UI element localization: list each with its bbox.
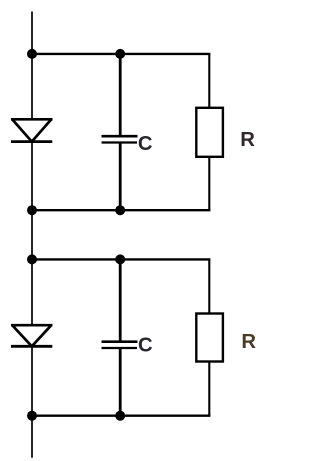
junction dot: stage 1 bottom-left <box>27 205 37 215</box>
label R (stage 2) <box>241 331 256 353</box>
wire: stage 2 top horizontal <box>32 258 210 260</box>
diode D2 <box>11 325 53 346</box>
capacitor C1 plates <box>102 136 138 142</box>
junction dot: stage 1 top-left <box>27 49 37 59</box>
wire: stage 2 bottom horizontal <box>32 415 210 417</box>
wire: stage 1 right vertical (resistor branch) <box>208 54 210 210</box>
junction dot: stage 1 top-capacitor <box>115 49 125 59</box>
label C (stage 2) <box>138 335 153 357</box>
wire: stage 1 capacitor top lead <box>119 54 122 136</box>
svg-text:R: R <box>241 331 256 353</box>
wire: stage 2 capacitor bottom lead <box>119 348 122 416</box>
diode D1 <box>11 119 53 141</box>
svg-text:R: R <box>240 129 255 151</box>
wire: left vertical bus <box>31 12 33 458</box>
capacitor C2 plates <box>102 342 138 348</box>
label R (stage 1) <box>240 129 255 151</box>
svg-text:C: C <box>138 133 153 155</box>
resistor R1 <box>196 108 223 157</box>
label C (stage 1) <box>138 133 153 155</box>
junction dot: stage 2 top-left <box>27 254 37 264</box>
wire: stage 2 capacitor top lead <box>119 259 122 341</box>
wire: stage 1 bottom horizontal <box>32 209 210 211</box>
junction dot: stage 2 top-capacitor <box>115 254 125 264</box>
resistor R2 <box>196 314 223 362</box>
wire: stage 2 right vertical (resistor branch) <box>208 259 210 415</box>
junction dot: stage 2 bottom-left <box>27 411 37 421</box>
wire: stage 1 top horizontal <box>32 53 210 55</box>
wire: stage 1 capacitor bottom lead <box>119 143 122 211</box>
svg-text:C: C <box>138 335 153 357</box>
junction dot: stage 2 bottom-capacitor <box>115 411 125 421</box>
junction dot: stage 1 bottom-capacitor <box>115 205 125 215</box>
